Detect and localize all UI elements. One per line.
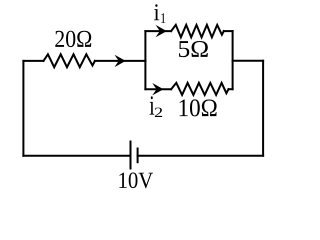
wire bottom left <box>23 155 130 157</box>
wire left vertical <box>22 61 24 156</box>
wire parallel-box left vertical <box>144 31 146 89</box>
battery V1 long plate <box>130 142 132 169</box>
wire bottom branch right lead <box>229 88 233 90</box>
label 5ohm <box>179 41 208 57</box>
label i1 subscript <box>161 13 165 23</box>
resistor R3 10Ω <box>171 83 228 95</box>
resistor R1 20Ω <box>44 54 95 67</box>
wire parallel-box right vertical <box>232 31 234 89</box>
label i2 letter <box>150 96 155 114</box>
wire top branch right lead <box>224 30 233 32</box>
wire main horizontal right lead <box>95 60 145 62</box>
wire right vertical <box>262 61 264 156</box>
wire bottom branch left lead <box>145 88 171 90</box>
wire bottom right <box>138 155 264 157</box>
resistor R2 5Ω <box>171 25 224 37</box>
label i2 subscript <box>155 108 162 117</box>
wire top branch left lead <box>145 30 171 32</box>
arrow main current <box>115 55 126 67</box>
arrow i1 <box>156 25 167 37</box>
battery V1 short plate <box>137 149 139 163</box>
label i1 letter <box>154 4 159 20</box>
label 20ohm <box>55 31 91 47</box>
arrow i2 <box>152 83 163 95</box>
wire main horizontal left lead <box>23 60 43 62</box>
label 10V <box>119 173 153 189</box>
label 10ohm <box>180 99 217 116</box>
wire right stub <box>233 60 264 62</box>
